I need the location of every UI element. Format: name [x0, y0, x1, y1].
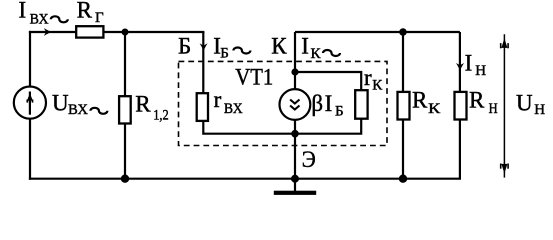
svg-text:R: R — [469, 87, 485, 112]
junction dot (RК bottom node) — [399, 175, 407, 183]
wire left vertical (source branch) — [29, 31, 31, 180]
resistor R1,2 (vertical box) — [119, 96, 131, 123]
label UВХ~ (source) — [52, 91, 107, 119]
wire top-left horizontal (input net) — [29, 31, 205, 33]
resistor RН (vertical box) — [455, 92, 467, 120]
UН measurement double arrow — [501, 34, 508, 177]
junction dot (collector K node) — [291, 68, 298, 75]
svg-text:R: R — [412, 87, 428, 112]
label RГ — [77, 0, 104, 26]
dependent current source βIБ (circle with double chevron) — [280, 89, 311, 120]
label IБ~ (base current) — [213, 33, 250, 61]
arrow load current (on RН wire) — [456, 63, 464, 70]
wire collector vertical (K node down through source to emitter and ground) — [294, 32, 296, 179]
svg-text:ВХ: ВХ — [68, 102, 88, 118]
svg-text:I: I — [19, 0, 27, 22]
svg-text:r: r — [214, 87, 222, 112]
wire bottom horizontal (common net) — [29, 178, 461, 180]
svg-text:ВХ: ВХ — [224, 101, 243, 117]
resistor rК (vertical box) — [355, 90, 367, 119]
svg-text:Н: Н — [489, 101, 498, 117]
svg-text:I: I — [465, 51, 473, 76]
wire RН branch vertical — [459, 32, 461, 179]
label IК~ (collector current) — [301, 34, 340, 63]
wire rК loop — [295, 72, 361, 134]
svg-text:U: U — [52, 91, 69, 116]
svg-text:I: I — [301, 34, 309, 59]
label RК — [412, 87, 441, 117]
arrow base current (on base wire) — [200, 43, 208, 50]
svg-text:Э: Э — [302, 147, 316, 172]
svg-text:β: β — [311, 91, 323, 116]
wire R1,2 branch vertical — [124, 32, 126, 179]
dashed box (transistor VT1 equivalent circuit boundary) — [179, 61, 388, 145]
svg-text:К: К — [428, 101, 441, 117]
svg-text:Б: Б — [178, 33, 191, 58]
svg-text:Б: Б — [220, 45, 229, 61]
wire RК branch vertical — [402, 32, 404, 179]
wire top-right horizontal (collector to load) — [295, 31, 460, 33]
wire base branch: down from top wire through rВХ to emitter node — [203, 32, 295, 134]
svg-text:ВХ: ВХ — [30, 11, 49, 27]
label UН (output voltage) — [516, 90, 545, 118]
svg-text:Н: Н — [534, 102, 545, 118]
label βIБ (controlled source value) — [311, 91, 343, 120]
svg-text:VT1: VT1 — [235, 64, 273, 89]
svg-text:К: К — [372, 77, 383, 93]
svg-text:R: R — [135, 92, 151, 117]
svg-text:Г: Г — [95, 10, 104, 26]
svg-text:U: U — [516, 90, 533, 115]
junction dot (emitter ground node) — [291, 175, 299, 183]
ground — [274, 179, 316, 195]
junction dot (emitter internal node) — [291, 130, 299, 138]
resistor RГ (horizontal box) — [76, 26, 103, 37]
resistor RК (vertical box) — [398, 92, 410, 120]
source UВХ (circle with up arrow) — [14, 87, 46, 119]
svg-text:К: К — [311, 46, 322, 62]
junction dot (RК top node) — [399, 28, 407, 36]
label rВХ — [214, 87, 243, 117]
label IВХ~ (input current) — [19, 0, 68, 27]
junction dot (RГ output node) — [122, 29, 129, 36]
label R1,2 — [135, 92, 169, 124]
junction dot (R1,2 bottom node) — [121, 175, 129, 183]
arrow input current (on top-left wire) — [44, 28, 51, 36]
resistor rВХ (vertical box) — [197, 93, 208, 121]
svg-text:I: I — [325, 91, 333, 116]
svg-text:1,2: 1,2 — [153, 108, 169, 124]
label RН (load) — [469, 87, 498, 117]
svg-text:R: R — [77, 0, 93, 23]
svg-text:Н: Н — [475, 63, 486, 79]
label IН (load current) — [465, 51, 487, 80]
svg-text:К: К — [271, 33, 287, 58]
svg-text:Б: Б — [335, 104, 344, 120]
label rК — [364, 65, 383, 93]
svg-text:r: r — [364, 65, 372, 90]
